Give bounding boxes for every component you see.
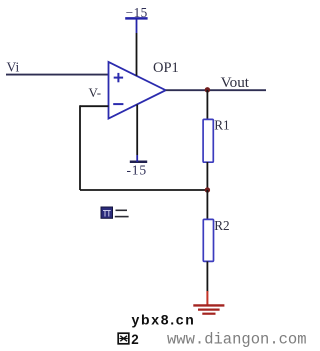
wire [206, 190, 208, 220]
wire [136, 18, 138, 33]
ground [193, 291, 224, 314]
wire [136, 33, 138, 76]
svg-text:R2: R2 [214, 218, 229, 233]
wire [80, 189, 207, 191]
wire [166, 89, 266, 91]
wire [79, 105, 81, 190]
label 图二 [101, 207, 129, 218]
svg-text:OP1: OP1 [153, 60, 179, 76]
op-amp OP1 [109, 62, 166, 119]
wire [206, 90, 208, 120]
wire [206, 162, 208, 190]
svg-text:V-: V- [89, 85, 102, 100]
svg-text:Vout: Vout [221, 74, 250, 91]
svg-text:R1: R1 [214, 118, 229, 133]
resistor R1 [203, 119, 213, 162]
node junction [205, 187, 210, 192]
svg-text:Vi: Vi [7, 60, 20, 75]
wire [136, 105, 138, 156]
label 图2 [118, 332, 138, 347]
svg-text:2: 2 [131, 332, 138, 347]
power rail -15 top [125, 5, 147, 20]
resistor R2 [203, 219, 213, 261]
node junction [205, 87, 210, 92]
power rail -15 bottom [127, 162, 148, 178]
svg-text:ybx8.cn: ybx8.cn [132, 311, 196, 327]
wire [80, 105, 109, 107]
svg-text:www.diangon.com: www.diangon.com [167, 331, 307, 349]
wire [6, 74, 109, 76]
wire [206, 261, 208, 292]
wire [136, 155, 138, 162]
svg-text:-15: -15 [127, 162, 147, 177]
